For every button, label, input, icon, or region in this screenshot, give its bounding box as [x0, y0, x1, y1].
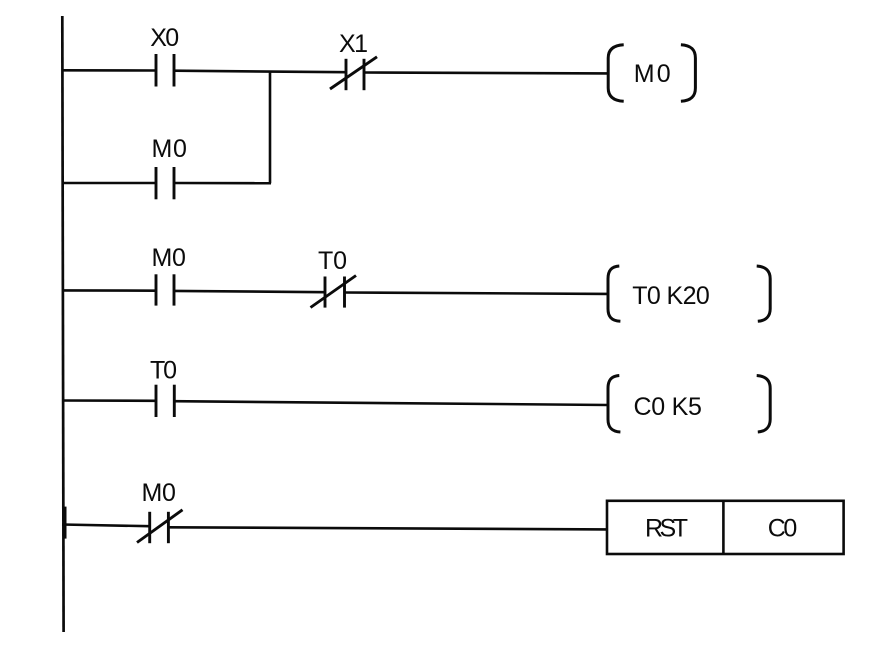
- svg-text:X0: X0: [150, 24, 179, 52]
- svg-text:T0 K20: T0 K20: [632, 282, 710, 310]
- svg-text:X1: X1: [339, 30, 368, 58]
- svg-text:M0: M0: [151, 244, 186, 272]
- svg-text:M0: M0: [634, 60, 671, 88]
- svg-text:T0: T0: [150, 357, 177, 385]
- svg-text:RST: RST: [645, 515, 688, 543]
- svg-text:C0: C0: [768, 515, 798, 543]
- svg-text:C0 K5: C0 K5: [633, 393, 702, 421]
- svg-text:M0: M0: [141, 479, 176, 507]
- svg-text:M0: M0: [151, 135, 187, 163]
- svg-text:T0: T0: [318, 247, 347, 275]
